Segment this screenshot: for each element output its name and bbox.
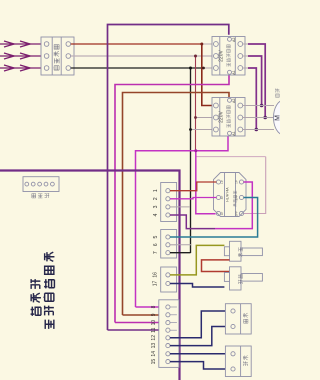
svg-text:A1: A1 — [232, 70, 236, 75]
svg-text:2: 2 — [153, 197, 159, 200]
junction dot T — [189, 67, 192, 70]
coil net brown K2-A2: strip row2 up to y92.5 across — [123, 93, 230, 316]
svg-text:7: 7 — [153, 251, 159, 254]
coil net magenta K2-A1: strip row1 up to y149.5 across to A1 — [136, 136, 229, 307]
wire T branch to K2 row3 — [191, 129, 214, 131]
junction dot magenta — [194, 149, 197, 152]
wire terminal1 to selector pin1 (red) — [170, 182, 216, 191]
svg-text:1P: 1P — [235, 180, 239, 184]
K1 label 交流接触器 — [226, 45, 230, 67]
terminal strip 5-7 — [161, 230, 177, 259]
bottom terminal strip 8-15 — [159, 300, 179, 368]
svg-text:M: M — [275, 115, 281, 121]
title 主控板接线图 (vertical) — [44, 252, 55, 329]
wire switch to fuse (red U) — [202, 260, 230, 272]
magenta corner into strip row3 — [115, 322, 166, 324]
K1 output wire row2 to motor row1 — [243, 55, 248, 57]
wire S branch to K2 row2 — [196, 117, 214, 119]
svg-text:3PF: 3PF — [235, 211, 239, 217]
incoming mains wire L3 — [0, 65, 44, 71]
svg-text:16: 16 — [153, 272, 159, 278]
motor label 电机 — [275, 88, 279, 97]
display connector box — [23, 177, 59, 192]
svg-text:9: 9 — [151, 313, 157, 316]
svg-text:12: 12 — [151, 335, 157, 341]
magenta corner into strip row1 — [136, 306, 166, 308]
wire terminal16 to switch (olive) — [170, 245, 224, 275]
cutter2 box 切刀 — [225, 346, 251, 377]
mauve horizontal line — [196, 156, 266, 158]
svg-text:4P: 4P — [220, 196, 224, 200]
svg-text:1: 1 — [153, 189, 159, 192]
svg-text:11: 11 — [151, 327, 157, 332]
selector switch octagon — [214, 173, 247, 217]
purple corner into strip row4 — [108, 329, 166, 331]
motor feed row3 — [243, 129, 274, 131]
contactor K2 220V — [212, 98, 245, 137]
svg-text:A2: A2 — [232, 98, 236, 103]
motor feed row1 — [243, 105, 274, 107]
svg-text:HL/HY4A: HL/HY4A — [226, 187, 230, 202]
svg-text:2PF: 2PF — [235, 195, 239, 201]
junction dot S2 — [194, 116, 197, 119]
K2 label 交流接触器 — [226, 106, 230, 128]
wire phase T (black) power switch to K1 — [71, 67, 204, 69]
incoming mains wire L2 — [0, 53, 44, 59]
terminal strip 16-17 — [161, 267, 177, 292]
wire terminal17 to fuse (navy) — [170, 284, 224, 288]
power switch 电源开关 — [41, 37, 74, 75]
junction dot R — [200, 43, 203, 46]
wire terminal4 to selector right pin1 (violet/magenta) — [170, 215, 215, 229]
title 第八代 (vertical) — [31, 279, 41, 316]
display connector label 显示板 — [32, 194, 49, 198]
K1 output wire row3 to motor row3 — [243, 67, 248, 69]
switch symbol 开关 — [224, 241, 262, 261]
svg-text:15: 15 — [151, 359, 157, 365]
svg-text:17: 17 — [153, 281, 159, 287]
svg-text:10: 10 — [151, 320, 157, 326]
wire terminal7 to black drop — [170, 252, 191, 254]
wire strip15 to cutter2 bottom (navy) — [170, 362, 231, 369]
crossing dot red-black — [202, 67, 205, 70]
K1 output wire row1 to motor row2 — [243, 43, 248, 45]
svg-text:13: 13 — [151, 343, 157, 349]
wire terminal6 stub — [170, 244, 191, 246]
power switch label 电源开关 (vertical) — [54, 45, 60, 70]
svg-text:A2: A2 — [232, 37, 236, 42]
wire phase R drop to K2 row1 — [202, 44, 214, 106]
junction dot T2 — [189, 128, 192, 131]
cutter1 box 回刀 — [225, 304, 251, 334]
junction dot — [263, 116, 267, 120]
svg-text:4: 4 — [153, 213, 159, 216]
terminal strip 1-4 — [161, 183, 177, 222]
wire strip14 to cutter2 top (navy) — [170, 353, 231, 355]
svg-text:8: 8 — [151, 305, 157, 308]
svg-text:5: 5 — [153, 235, 159, 238]
svg-text:220V: 220V — [219, 111, 225, 123]
contactor K1 220V — [212, 37, 245, 76]
motor M — [274, 100, 295, 135]
brown corner into strip row2 — [123, 314, 166, 316]
svg-text:LP: LP — [220, 180, 224, 184]
junction dot S — [194, 55, 197, 58]
svg-text:1P: 1P — [220, 212, 224, 216]
svg-text:220V: 220V — [219, 50, 225, 62]
svg-text:6: 6 — [153, 243, 159, 246]
main board outline (thick purple) — [0, 171, 180, 380]
wire phase R (red) power switch to K1 — [71, 43, 202, 45]
svg-text:A1: A1 — [232, 131, 236, 136]
wire phase S (grey) power switch to K1 — [71, 55, 214, 57]
magenta branch down to selector left pin3 — [196, 151, 216, 214]
svg-text:14: 14 — [151, 351, 157, 357]
wire phase S drop (crimson) — [195, 56, 197, 151]
wire terminal3 stub — [170, 206, 190, 208]
wire phase T drop (black) — [190, 68, 192, 253]
wire strip13 to cutter1 bottom (navy) — [170, 327, 231, 346]
wire strip12 to cutter1 top (navy) — [170, 311, 231, 338]
wire terminal5 to selector right pin2 (teal) — [170, 198, 258, 238]
wire terminal2 to selector pin2 (magenta) — [170, 198, 216, 199]
junction dot — [254, 128, 258, 132]
mauve continuation to selector right pin3 — [244, 157, 266, 214]
coil net magenta K1-A1: strip row3 up to y83.5 across to A1 — [115, 75, 229, 323]
svg-text:3: 3 — [153, 205, 159, 208]
incoming mains wire L1 — [0, 41, 44, 47]
junction dot — [260, 104, 264, 108]
coil net purple: strip row4 up left edge to top and across — [108, 25, 229, 331]
fuse symbol 保险 — [224, 267, 262, 290]
motor feed row2 — [243, 117, 274, 119]
